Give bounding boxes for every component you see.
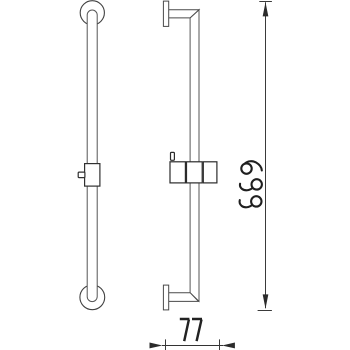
horizontal dimension left tick (165, 339, 167, 350)
vertical dimension top tick (259, 1, 272, 3)
side view top wall plate (163, 1, 168, 26)
side view slider right block (203, 162, 217, 183)
side view bottom wall plate (163, 285, 168, 310)
digit 9 bowl (241, 163, 251, 173)
vertical dimension bottom tick (258, 310, 272, 312)
digit 7 first (180, 319, 190, 341)
side view top arm (167, 10, 199, 18)
front view bottom ring (80, 285, 105, 310)
side view slider middle block (187, 162, 203, 183)
vertical dimension line (265, 2, 267, 308)
horizontal dimension line (162, 344, 223, 346)
side view bottom arm (167, 293, 199, 302)
digit 6 (middle) bowl (252, 179, 262, 189)
front view top ring (80, 1, 104, 25)
side view slider left block (170, 162, 185, 183)
digit 6 (middle) tail (240, 184, 253, 191)
front view rail tube (87, 10, 97, 302)
front view slider knob (78, 172, 85, 178)
side view rail bar (190, 10, 199, 302)
vertical dimension label 669 (rotated, hand drawn) (240, 161, 262, 207)
vertical dimension top arrow (263, 2, 269, 16)
front view slider body (85, 164, 100, 187)
horizontal dimension right tick (219, 339, 221, 350)
vertical dimension bottom arrow (263, 294, 269, 308)
horizontal dimension right arrow (222, 343, 235, 349)
digit 9 tail (245, 161, 262, 170)
digit 6 (bottom) tail (240, 200, 253, 207)
horizontal dimension left arrow (150, 343, 163, 349)
side view slider knob (171, 152, 175, 160)
digit 6 (bottom) bowl (251, 196, 261, 206)
horizontal dimension label 77 (hand drawn) (180, 319, 202, 341)
digit 7 second (192, 319, 202, 341)
